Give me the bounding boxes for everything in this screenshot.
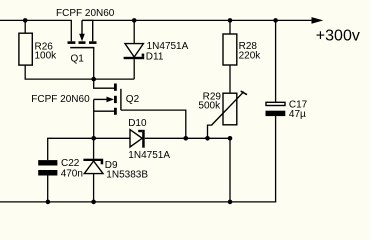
source stub	[92, 20, 94, 41]
resistor R26	[24, 20, 26, 33]
source lead	[94, 110, 114, 112]
gate plate	[70, 47, 94, 49]
body arrow stub	[81, 20, 83, 34]
svg-text:1N4751A: 1N4751A	[128, 150, 170, 161]
gate plate	[120, 89, 122, 110]
svg-text:+300v: +300v	[316, 28, 360, 45]
svg-text:D11: D11	[146, 52, 164, 63]
gate lead down	[93, 48, 95, 80]
trimmer potentiometer R29 500k	[198, 91, 247, 138]
node dot R29 column bottom	[228, 200, 233, 205]
node dot C22 bottom	[46, 200, 51, 205]
channel bars	[114, 84, 117, 91]
svg-text:D10: D10	[128, 118, 147, 129]
svg-text:C22: C22	[61, 158, 80, 169]
node dot R29 bottom	[228, 136, 233, 141]
svg-text:Q2: Q2	[126, 94, 140, 105]
resistor R28 220k	[223, 20, 261, 93]
svg-text:500k: 500k	[198, 101, 221, 112]
node dot D9 bottom	[91, 200, 96, 205]
wire Q2 gate to lower node	[121, 110, 186, 138]
wire D11 bottom to gate node	[94, 78, 135, 80]
svg-text:1N4751A: 1N4751A	[147, 41, 189, 52]
wire bottom ground rail	[0, 201, 276, 203]
node dot D11 top tap	[132, 18, 137, 23]
zener diode D9 1N5383B	[83, 138, 148, 202]
channel bars	[68, 41, 76, 44]
wiper T-bar	[241, 91, 247, 95]
node dot Q2 gate node on mid wire	[184, 136, 189, 141]
wire top rail left segment into Q1 drain	[0, 20, 71, 41]
wire R29 bottom down to ground rail	[229, 138, 231, 202]
node dot R28 top tap	[228, 18, 233, 23]
wire R26 bottom to gate node	[25, 65, 94, 79]
body lead with arrow	[94, 98, 108, 100]
node dot Q2 source node	[91, 136, 96, 141]
wire source node to C22 and D10 anode	[48, 138, 130, 160]
wiper diagonal	[212, 92, 244, 125]
wire mid node to wiper	[186, 137, 230, 139]
capacitor C17 47u electrolytic	[266, 20, 308, 202]
svg-text:100k: 100k	[35, 50, 58, 61]
capacitor C22 470n	[38, 158, 83, 202]
+300v supply arrow	[312, 17, 324, 24]
svg-text:470n: 470n	[61, 169, 83, 180]
node dot gate node	[91, 77, 96, 82]
node dot C17 top tap	[273, 18, 278, 23]
svg-text:Q1: Q1	[71, 53, 85, 64]
svg-text:47µ: 47µ	[289, 109, 306, 120]
svg-text:FCPF 20N60: FCPF 20N60	[31, 94, 90, 105]
zener diode D11 1N4751A	[124, 20, 189, 79]
node dot R26 top tap	[23, 18, 28, 23]
wiper lead	[208, 125, 213, 138]
svg-text:220k: 220k	[239, 50, 262, 61]
zener diode D10 1N4751A	[128, 118, 186, 161]
svg-text:1N5383B: 1N5383B	[106, 170, 148, 181]
node dot wiper tap	[205, 136, 210, 141]
wire top rail right segment from Q1 source to arrow	[82, 19, 94, 21]
source/body vertical	[93, 99, 95, 138]
svg-text:FCPF 20N60: FCPF 20N60	[56, 8, 115, 19]
drain lead from gate node	[94, 79, 114, 88]
